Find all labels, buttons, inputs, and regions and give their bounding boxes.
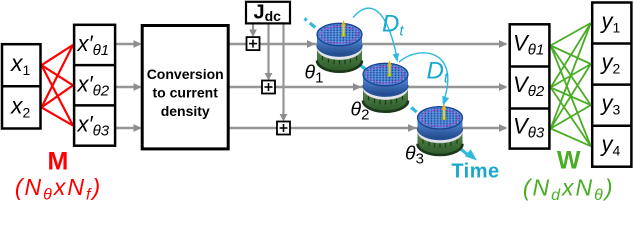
wire: gray line 1 conversion to V box	[228, 43, 506, 46]
svg-text:Time: Time	[451, 161, 499, 183]
output voltage box Vθ1-3	[510, 24, 550, 148]
masked input box x'θ1-3	[74, 25, 115, 146]
green output weight bipartite	[551, 23, 591, 146]
svg-text:M: M	[47, 148, 68, 176]
oscillator 1	[317, 20, 362, 72]
output vector box y1-4	[592, 3, 631, 167]
coupling arc D_t 2	[399, 53, 448, 103]
conversion box	[142, 26, 228, 149]
J_dc source box	[246, 2, 290, 25]
time axis arrowhead	[461, 149, 469, 155]
adder node 3	[277, 122, 290, 135]
arrowhead into conversion box line 1	[134, 40, 143, 48]
svg-text:W: W	[557, 147, 581, 175]
wire: J_dc drop line 3	[282, 23, 284, 118]
arrowhead into oscillator 1	[307, 40, 316, 48]
arrowhead into conversion box line 2	[134, 83, 143, 91]
wire: gray line 2 conversion to V box	[228, 86, 506, 89]
wire: gray line 3 conversion to V box	[228, 127, 506, 130]
coupling arc D_t 1	[353, 8, 397, 58]
svg-text:to current: to current	[153, 85, 219, 101]
adder node 1	[247, 37, 260, 50]
wire: gray line 2 stub x'box to conversion	[115, 86, 139, 89]
wire: gray line 3 stub x'box to conversion	[115, 127, 139, 130]
arrowhead into oscillator 2	[353, 83, 362, 91]
wire: J_dc drop line 1	[252, 23, 254, 33]
arrowhead into V box line 3	[499, 124, 508, 132]
wire: J_dc drop line 2	[267, 23, 269, 77]
red mask lines input bipartite	[42, 45, 74, 126]
svg-text:density: density	[161, 103, 210, 119]
oscillator 2	[363, 60, 408, 112]
adder node 2	[262, 81, 275, 94]
oscillator 3	[418, 103, 463, 155]
cyan dashed time axis line	[305, 19, 462, 150]
arrowhead into V box line 1	[499, 40, 508, 48]
arrowhead into conversion box line 3	[134, 124, 143, 132]
wire: gray line 1 stub x'box to conversion	[115, 43, 139, 46]
input vector box x1 x2	[2, 44, 41, 128]
arrowhead into V box line 2	[499, 83, 508, 91]
svg-text:Conversion: Conversion	[147, 66, 224, 82]
arrowhead into oscillator 3	[408, 124, 417, 132]
